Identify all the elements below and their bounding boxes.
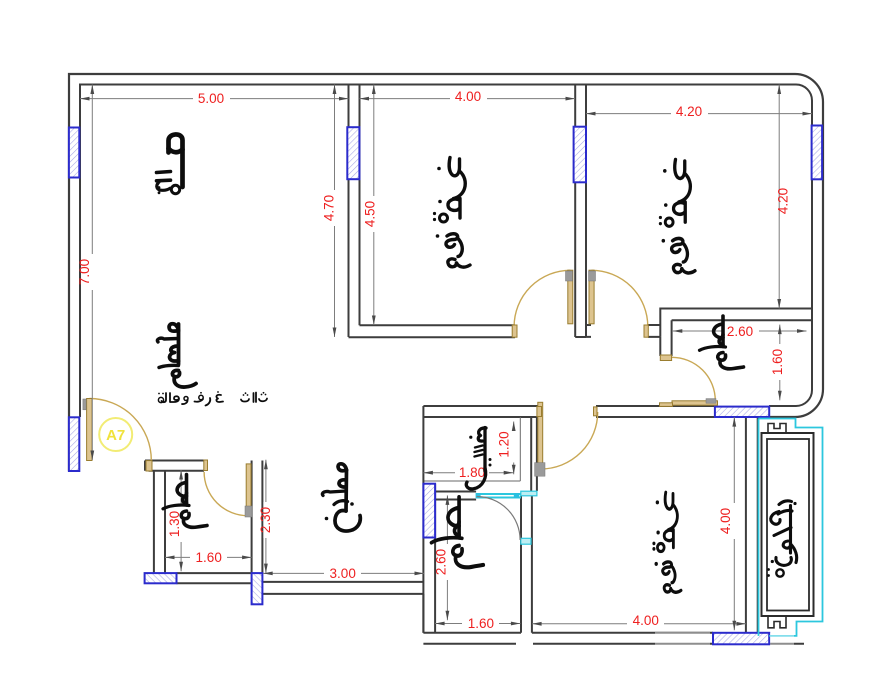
label bedroom2: [659, 160, 695, 273]
laundry right wall: [531, 417, 537, 491]
dim line 5.00 living room width: [80, 98, 349, 100]
dim line 1.60 bath right height: [779, 325, 781, 401]
label hammam bath2: [431, 497, 483, 567]
label hammam bath1: [163, 475, 207, 528]
dim line 2.60 bath2 height: [446, 495, 448, 620]
bottom wall bathroom2/bed3: [423, 633, 804, 644]
A7 circle: [99, 418, 132, 451]
dim line 1.20 laundry height: [513, 422, 515, 475]
svg-text:1.80: 1.80: [459, 465, 485, 480]
label hammam right bath: [700, 316, 744, 369]
door leaf bath1: [246, 464, 251, 516]
window W1 living room left wall: [69, 128, 79, 178]
dim line 2.60 bath right width: [673, 330, 807, 332]
dim line 4.20 bed2 width: [586, 113, 812, 115]
dim line 4.70 wall height: [334, 85, 336, 338]
dim line 4.00 bed3 width: [532, 623, 746, 625]
dim line 3.00 kitchen width: [263, 572, 424, 574]
outer wall top and left: [69, 74, 823, 471]
label taam (dining): [157, 324, 196, 387]
dim line 1.60 bath1 width: [165, 556, 252, 558]
column bath1 bottom-right: [252, 573, 263, 604]
dim line 4.20 bed2 height: [778, 85, 780, 309]
knockouts for rotated dim texts: [83, 183, 795, 580]
door arc bed2: [592, 270, 648, 326]
svg-text:4.00: 4.00: [455, 89, 481, 104]
door arc entrance: [90, 399, 152, 461]
label balcona (balcony): [767, 501, 797, 577]
window W5 bath-balcony wall: [715, 407, 769, 417]
wall bed1/bed2: [575, 84, 586, 337]
dim line 7.00 living room height: [91, 85, 93, 461]
dim line 1.80 laundry width: [423, 472, 513, 474]
svg-text:1.60: 1.60: [468, 616, 494, 631]
label bedroom1 ghurfat nawm: [433, 158, 470, 268]
column entrance left wall: [69, 417, 79, 471]
window W2 wall living/bed1: [347, 127, 359, 179]
dim texts red: [77, 89, 791, 631]
svg-text:4.70: 4.70: [322, 195, 337, 221]
svg-text:4.20: 4.20: [776, 188, 791, 214]
wall salle/bed1: [349, 84, 360, 337]
bathroom right top wall: [660, 309, 812, 357]
ARABIC LABELS AS PATHS: [157, 134, 797, 592]
door leaf bed2: [589, 270, 594, 324]
svg-text:1.60: 1.60: [196, 550, 222, 565]
bed3 right wall: [746, 417, 758, 633]
door leaf bed1: [568, 270, 573, 324]
door stops / jambs tan: [146, 325, 672, 471]
door leaf entrance: [87, 399, 92, 461]
door arc bed1: [514, 270, 570, 326]
bathroom2 left wall: [423, 417, 435, 633]
bed1 bottom wall: [349, 325, 515, 337]
svg-text:5.00: 5.00: [198, 91, 224, 106]
svg-text:7.00: 7.00: [77, 259, 92, 285]
balcony railing: [762, 424, 814, 628]
svg-text:2.60: 2.60: [433, 549, 448, 575]
faint watermark patches: [655, 632, 794, 647]
label thalath ghuraf wasala: [158, 391, 267, 405]
dim line 4.00 bed1 width: [360, 98, 576, 100]
svg-text:4.00: 4.00: [718, 508, 733, 534]
inner wall face top/left/right: [80, 85, 812, 418]
laundry inner thin lines: [424, 417, 520, 481]
door arc bath right: [672, 357, 716, 401]
column bath1 bottom-left: [145, 573, 177, 583]
svg-text:2.60: 2.60: [727, 324, 753, 339]
bed2 bottom wall segment: [586, 325, 660, 337]
door leaf bed3: [538, 402, 543, 467]
svg-text:4.50: 4.50: [363, 201, 378, 227]
label bedroom3: [652, 492, 681, 592]
svg-text:4.20: 4.20: [676, 104, 702, 119]
dim line 2.30 kitchen side height: [265, 460, 267, 573]
svg-text:1.20: 1.20: [496, 431, 511, 457]
svg-text:2.30: 2.30: [258, 507, 273, 533]
dim line 1.30 bath1 height: [180, 470, 182, 571]
window W3 wall bed1/bed2: [574, 127, 586, 183]
window W6 bed3 bottom wall: [713, 633, 769, 645]
label sala (living room): [157, 134, 183, 194]
dim line 1.60 bath2 width: [435, 623, 520, 625]
kitchen bottom wall: [262, 582, 423, 633]
gray hinge blocks: [83, 271, 716, 517]
bathroom2 top wall + right wall: [435, 492, 532, 633]
door arc bath1: [204, 472, 248, 516]
svg-text:A7: A7: [106, 427, 125, 444]
cyan balcony outline: [759, 419, 823, 636]
dim line 4.00 bed3 height: [733, 417, 735, 630]
window W4 bed2 right wall: [812, 126, 823, 180]
dim line 4.50 bed1 height: [373, 85, 375, 326]
svg-text:4.00: 4.00: [633, 613, 659, 628]
door leaf bath right: [672, 401, 718, 405]
column bath2 left: [423, 484, 435, 538]
door arc bed3: [541, 412, 598, 469]
label ghaseel (laundry): [466, 428, 491, 489]
svg-text:3.00: 3.00: [330, 566, 356, 581]
svg-text:1.60: 1.60: [770, 349, 785, 375]
door arc bath2: [477, 497, 520, 541]
bathroom1 walls: [145, 461, 262, 584]
cyan glass bathroom2: [476, 494, 521, 498]
label matbakh (kitchen): [322, 464, 360, 531]
dimension arrows: [80, 85, 812, 631]
bathroom right bottom wall / corridor bottom wall: [423, 406, 714, 417]
